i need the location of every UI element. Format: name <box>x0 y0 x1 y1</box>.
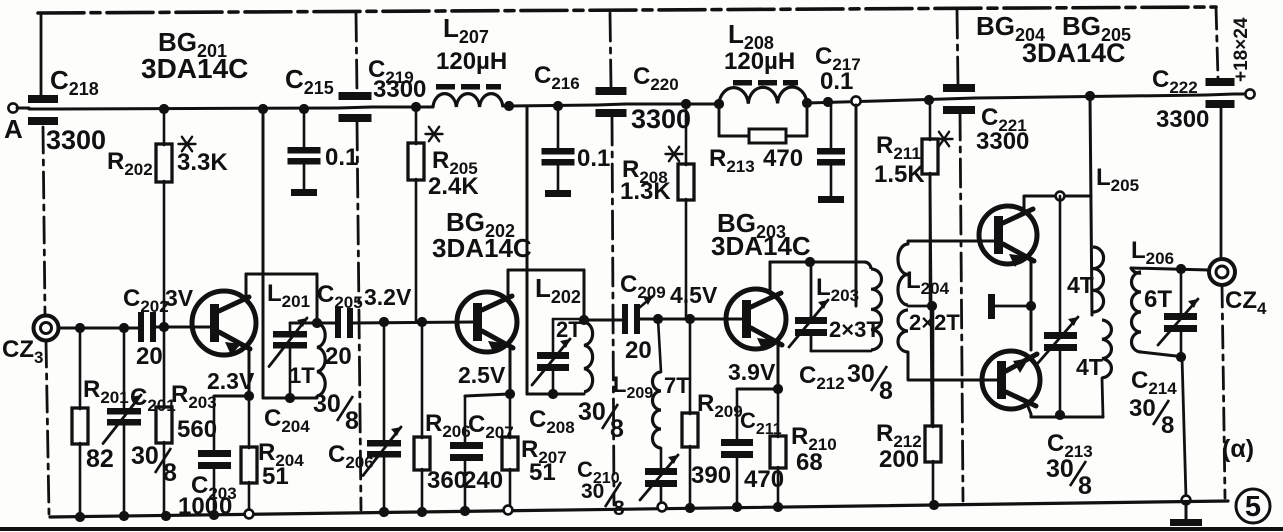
inductor L206 coil 6T <box>1131 268 1141 273</box>
resistor R213 (across L208) <box>718 104 721 136</box>
node C201 top <box>119 323 129 333</box>
svg-text:3V: 3V <box>165 285 194 311</box>
svg-text:3300: 3300 <box>631 104 691 134</box>
node L206 top <box>1176 264 1186 274</box>
svg-text:8: 8 <box>1078 472 1092 500</box>
svg-text:6T: 6T <box>1144 286 1172 313</box>
svg-text:0.1: 0.1 <box>820 68 853 95</box>
capacitor C211 <box>736 389 739 439</box>
shield border top (dash-dot) <box>38 7 1216 13</box>
node ground (open) <box>1182 496 1191 505</box>
svg-text:3DA14C: 3DA14C <box>1022 38 1126 68</box>
inductor L203 coil 2X3T <box>865 262 871 269</box>
wire BG204 emitter to common <box>1030 259 1031 350</box>
wire rail segment 6 <box>975 95 1206 98</box>
svg-text:4T: 4T <box>1076 354 1103 380</box>
svg-text:3.9V: 3.9V <box>728 359 776 385</box>
svg-text:240: 240 <box>463 467 503 494</box>
node L207 right <box>504 101 514 111</box>
wire tank3 top <box>770 261 865 264</box>
wire rail segment 5 <box>807 99 944 103</box>
connector CZ4 <box>1209 259 1235 285</box>
wire tank2 right <box>583 270 586 320</box>
wire BG201 collector riser <box>245 274 248 296</box>
capacitor C206 (variable) <box>383 322 386 440</box>
node R210 bottom <box>773 502 783 512</box>
svg-text:8: 8 <box>345 407 359 435</box>
svg-text:30: 30 <box>581 480 604 503</box>
svg-text:3300: 3300 <box>1156 106 1209 133</box>
svg-text:120µH: 120µH <box>436 48 507 75</box>
svg-text:30: 30 <box>1046 455 1074 483</box>
wire BG202 collector riser <box>507 270 510 295</box>
svg-text:2.4K: 2.4K <box>428 173 479 200</box>
svg-text:8: 8 <box>879 377 893 405</box>
node R202 top <box>159 104 169 114</box>
node tank4 top (open) <box>1056 192 1065 201</box>
wire L201 feed from rail <box>262 109 265 398</box>
R202 asterisk <box>179 137 196 151</box>
svg-text:3300: 3300 <box>976 128 1029 155</box>
wire C205 to BG202 base <box>353 322 475 323</box>
node R204 bottom (open) <box>245 510 254 519</box>
wire L204 to BG204 base <box>908 241 996 244</box>
node R207 bottom (open) <box>504 506 513 515</box>
svg-text:0.1: 0.1 <box>325 144 358 171</box>
wire rail behind C222 <box>1206 94 1234 95</box>
svg-text:4.5V: 4.5V <box>670 282 718 308</box>
shield border left (dash-dot) <box>40 13 43 96</box>
node C215 top <box>299 104 309 114</box>
wire CZ3 to C202 <box>58 327 138 330</box>
wire BG205 collector <box>1027 404 1031 417</box>
wire L206 top <box>1131 268 1209 270</box>
svg-text:2×3T: 2×3T <box>829 317 880 342</box>
resistor R209 <box>689 319 692 414</box>
wire BG204 collector <box>1024 196 1091 213</box>
svg-text:3DA14C: 3DA14C <box>711 231 811 261</box>
node tank2 bottom <box>548 389 558 399</box>
wire tank1 bottom <box>263 397 317 400</box>
inductor L202 coil 2T <box>584 322 593 392</box>
shield border right (dash-dot through C222) <box>1216 7 1218 79</box>
wire rail segment 4 <box>626 103 719 106</box>
node R205 bottom / base <box>417 317 427 327</box>
wire rail segment 1 <box>57 108 338 109</box>
svg-text:470: 470 <box>763 145 803 172</box>
svg-text:200: 200 <box>879 446 919 473</box>
node L204 tap <box>927 301 937 311</box>
node L206 bottom <box>1176 352 1186 362</box>
capacitor C212 (variable) <box>795 317 827 324</box>
R211 asterisk <box>936 132 953 146</box>
node emitter BG202 <box>505 389 515 399</box>
capacitor C203 <box>213 396 216 449</box>
wire emitter to C211 <box>737 388 778 391</box>
svg-text:390: 390 <box>691 462 731 489</box>
capacitor C208 (variable) <box>537 352 569 359</box>
resistor R211 <box>929 100 932 140</box>
R205 asterisk <box>426 127 443 141</box>
node R205 top <box>411 102 421 112</box>
resistor R208 <box>685 104 688 165</box>
wire emitter to C207 <box>465 394 510 396</box>
wire L201 box top <box>246 273 317 276</box>
svg-text:5: 5 <box>1245 491 1261 523</box>
wire rail to output terminal <box>1234 93 1245 96</box>
svg-text:1.5K: 1.5K <box>874 161 925 188</box>
node L208 left <box>714 99 724 109</box>
wire tank3 bottom <box>811 350 871 353</box>
svg-text:+18×24: +18×24 <box>1231 17 1252 82</box>
C209 slash <box>639 296 653 308</box>
node R209 bottom <box>685 503 695 513</box>
svg-text:3DA14C: 3DA14C <box>432 233 532 263</box>
capacitor C218 (feedthrough) <box>28 95 58 103</box>
svg-text:51: 51 <box>262 463 289 490</box>
capacitor C222 (feedthrough) <box>1206 78 1235 86</box>
wire tank3 left <box>810 262 813 317</box>
wire tank2 bottom <box>527 393 584 396</box>
node emitter BG203 <box>773 384 783 394</box>
node R212 bottom <box>929 500 939 510</box>
node tank4 bottom <box>1055 410 1065 420</box>
resistor R202 <box>163 109 166 145</box>
node tank1 top <box>312 318 322 328</box>
resistor R204 <box>248 396 251 448</box>
wire output feed from rail <box>1090 96 1092 315</box>
svg-text:3300: 3300 <box>373 76 426 103</box>
wire tank2 top <box>508 269 584 272</box>
node L203 feed (open) <box>851 96 860 105</box>
svg-text:30: 30 <box>847 360 875 388</box>
wire L203 feed <box>855 105 858 306</box>
node rail output feed <box>1085 91 1095 101</box>
node C206 bottom <box>379 507 389 517</box>
node C217 top <box>823 97 833 107</box>
svg-text:3.2V: 3.2V <box>364 284 412 310</box>
stage boundary 1 (dash-dot through C219) <box>356 13 357 93</box>
resistor R203 <box>163 327 166 408</box>
resistor R210 <box>777 389 780 437</box>
wire BG201 emitter <box>248 350 251 396</box>
node tank2 top <box>579 315 589 325</box>
node C201 bottom <box>119 511 129 521</box>
node C206 top <box>379 317 389 327</box>
figure number 5 <box>1236 489 1270 523</box>
wire BG203 collector riser <box>769 262 772 294</box>
capacitor C204 (variable) <box>289 323 292 331</box>
wire rail segment 3 <box>503 105 597 106</box>
wire C222 to CZ4 <box>1220 107 1223 259</box>
svg-text:30: 30 <box>131 442 159 470</box>
svg-text:1T: 1T <box>289 363 315 388</box>
transistor BG205 <box>982 351 1040 409</box>
wire tank1 to C205 <box>317 322 335 325</box>
svg-text:A: A <box>4 114 23 144</box>
svg-text:68: 68 <box>796 449 823 476</box>
wire tank1 node to C204 <box>290 322 317 325</box>
wire BG202 emitter <box>509 347 512 394</box>
node L208 right <box>802 98 812 108</box>
capacitor C201 (variable) <box>123 328 126 408</box>
svg-text:120µH: 120µH <box>724 48 795 75</box>
wire C214 to ground <box>1182 357 1186 498</box>
node R203 bottom <box>161 511 171 521</box>
svg-text:30: 30 <box>313 390 341 418</box>
inductor L201 coil 1T <box>317 323 325 396</box>
svg-text:0.1: 0.1 <box>577 145 610 172</box>
capacitor C210 (variable) <box>660 448 663 468</box>
node R208 bottom / R209 top <box>685 314 695 324</box>
node base BG201 <box>159 322 169 332</box>
svg-text:30: 30 <box>1129 395 1156 422</box>
terminal A <box>8 103 17 112</box>
wire emitter to C203 <box>214 395 249 398</box>
wire rail behind C218 <box>29 108 57 111</box>
node C216 top <box>553 101 563 111</box>
ground rail <box>50 501 1228 517</box>
capacitor C220 (feedthrough) <box>596 87 627 95</box>
wire tank4 bottom <box>1031 416 1103 419</box>
svg-text:(α): (α) <box>1222 435 1254 463</box>
svg-text:20: 20 <box>136 343 163 370</box>
node C203 bottom <box>209 510 219 520</box>
resistor R205 <box>415 107 418 144</box>
capacitor C216 <box>557 106 560 148</box>
stage boundary 2 (dash-dot through C220) <box>610 13 611 87</box>
svg-text:2T: 2T <box>556 317 582 342</box>
svg-text:8: 8 <box>1161 412 1174 439</box>
svg-text:82: 82 <box>86 445 114 473</box>
svg-text:560: 560 <box>177 416 217 443</box>
node R201 top <box>75 323 85 333</box>
transistor BG203 <box>726 289 786 349</box>
wire rail behind C221 <box>944 98 975 99</box>
svg-text:360: 360 <box>427 467 467 494</box>
node C207 bottom <box>460 506 470 516</box>
svg-text:1.3K: 1.3K <box>620 178 671 205</box>
inductor L207 <box>433 94 503 107</box>
capacitor C209 <box>622 304 628 334</box>
resistor R207 <box>509 394 512 438</box>
transistor BG201 <box>192 291 256 355</box>
wire rail behind C219 <box>338 107 372 108</box>
svg-text:2.5V: 2.5V <box>458 362 506 388</box>
capacitor C219 (feedthrough) <box>339 92 372 100</box>
wire C202 to BG201 base <box>156 326 212 329</box>
node R211 top <box>924 95 934 105</box>
wire rail segment 2 <box>372 106 433 109</box>
wire A to C218 <box>17 107 29 110</box>
node common emitter <box>1026 301 1036 311</box>
capacitor C214 (variable) <box>1180 269 1183 313</box>
wire L201 box right <box>316 274 319 323</box>
node L209 top <box>653 314 663 324</box>
capacitor C221 (feedthrough) <box>943 84 975 92</box>
svg-text:3300: 3300 <box>46 125 106 155</box>
svg-text:20: 20 <box>325 343 352 370</box>
svg-text:30: 30 <box>578 398 606 426</box>
resistor R201 <box>79 328 82 409</box>
inductor L205 coil 4T+4T <box>1093 247 1104 312</box>
resistor R206 <box>421 322 424 438</box>
svg-text:20: 20 <box>625 337 652 364</box>
wire rail behind C220 <box>597 104 626 105</box>
capacitor C202 <box>138 312 144 342</box>
transistor BG204 <box>979 206 1037 264</box>
resistor R212 <box>932 306 935 427</box>
node emitter BG201 <box>244 391 254 401</box>
svg-text:2×2T: 2×2T <box>909 310 960 335</box>
inductor L208 <box>719 87 807 104</box>
node C211 bottom <box>732 502 742 512</box>
node tank3 top <box>805 257 815 267</box>
inductor L209 coil 7T <box>658 319 661 372</box>
node R201 bottom <box>75 512 85 522</box>
node R206 bottom <box>417 507 427 517</box>
capacitor C215 <box>303 109 306 147</box>
capacitor C207 <box>464 396 467 442</box>
transistor BG202 <box>457 292 517 352</box>
wire L204 to BG205 base <box>908 352 999 380</box>
svg-text:3.3K: 3.3K <box>177 149 228 176</box>
svg-text:51: 51 <box>529 459 556 486</box>
node tank1 bottom <box>285 393 295 403</box>
ground symbol <box>1185 504 1188 519</box>
svg-text:8: 8 <box>610 415 624 443</box>
capacitor C213 (variable) <box>1059 196 1062 332</box>
node R208 top <box>681 99 691 109</box>
R208 asterisk <box>666 147 683 161</box>
wire R211 to R212 column <box>930 174 932 426</box>
stage boundary 3 (dash-dot through C221) <box>957 10 958 85</box>
node C210 bottom (open) <box>658 503 667 512</box>
svg-text:7T: 7T <box>664 373 690 398</box>
wire C209 to BG203 base <box>640 318 744 321</box>
wire L204 center tap <box>908 305 932 308</box>
terminal B+ (right) <box>1245 89 1254 98</box>
svg-text:4T: 4T <box>1067 272 1094 298</box>
inductor L204 coil 2X2T <box>898 244 908 305</box>
wire tank2 to C209 <box>584 319 621 322</box>
capacitor C217 <box>830 102 833 148</box>
connector CZ3 <box>34 316 59 341</box>
page bottom edge <box>0 527 1283 531</box>
node L201 feed <box>258 104 268 114</box>
wire 2T bracket <box>553 318 584 321</box>
capacitor emitter bypass <box>988 294 995 319</box>
capacitor C205 <box>335 308 341 338</box>
svg-text:3DA14C: 3DA14C <box>141 53 248 84</box>
wire L202 feed from rail <box>526 106 529 394</box>
wire BG203 emitter <box>777 344 780 389</box>
